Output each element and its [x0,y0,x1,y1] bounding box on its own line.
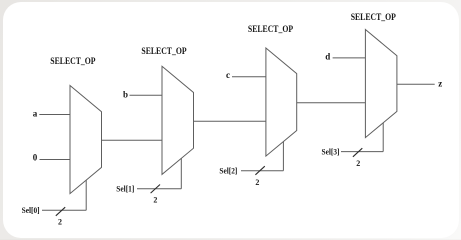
svg-text:SELECT_OP: SELECT_OP [248,24,294,34]
wire Sel[1] horizontal segment [137,188,181,190]
wire U4 output to z [397,83,435,85]
svg-text:0: 0 [33,153,38,163]
svg-text:2: 2 [58,218,62,227]
svg-text:SELECT_OP: SELECT_OP [351,12,397,22]
svg-text:d: d [325,51,330,61]
wire U2 output to U3 lower input [194,120,266,122]
bus-width slash Sel[2] [255,166,264,175]
svg-text:2: 2 [255,178,259,187]
svg-text:Sel[0]: Sel[0] [22,206,40,215]
svg-text:SELECT_OP: SELECT_OP [141,46,187,56]
mux U1 (SELECT_OP stage 1) [70,86,102,194]
mux U2 (SELECT_OP stage 2) [162,66,194,174]
wire 0 to U1 lower input [40,159,71,161]
wire Sel[0] horizontal segment [42,209,86,211]
svg-text:b: b [123,90,128,100]
svg-text:2: 2 [356,159,360,168]
wire Sel[2] vertical segment to U3 select pin [282,142,284,171]
wire a to U1 upper input [39,114,70,116]
svg-text:SELECT_OP: SELECT_OP [50,56,96,66]
mux U4 (SELECT_OP stage 4) [365,30,397,138]
bus-width slash Sel[0] [56,207,65,216]
svg-text:z: z [438,79,442,89]
bus-width slash Sel[3] [353,148,362,157]
svg-text:Sel[2]: Sel[2] [219,166,237,175]
svg-text:Sel[1]: Sel[1] [116,185,134,194]
wire Sel[0] vertical segment to U1 select pin [85,180,87,210]
wire Sel[3] horizontal segment [341,151,383,153]
mux U3 (SELECT_OP stage 3) [266,48,297,156]
wire Sel[2] horizontal segment [241,170,283,172]
svg-text:a: a [33,108,38,118]
wire Sel[3] vertical segment to U4 select pin [382,123,384,152]
wire d to U4 upper input [333,57,366,59]
wire c to U3 upper input [232,76,266,78]
svg-text:2: 2 [153,196,157,205]
wire U1 output to U2 lower input [102,139,163,141]
svg-text:c: c [226,70,230,80]
bus-width slash Sel[1] [151,185,160,194]
svg-text:Sel[3]: Sel[3] [322,147,340,156]
wire Sel[1] vertical segment to U2 select pin [180,158,182,189]
wire b to U2 upper input [130,94,163,96]
wire U3 output to U4 lower input [297,102,366,104]
